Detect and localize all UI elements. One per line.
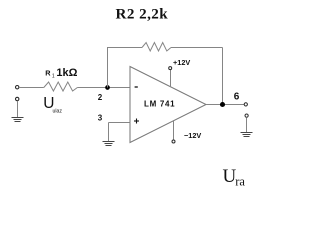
svg-text:6: 6 [234,92,240,103]
wire: J2 to input ground [17,101,19,118]
wire: feedback loop right vertical [222,48,224,105]
wire: J1 to R1 [19,87,44,89]
ground (pin 3) [103,142,115,146]
wire: J4 to output ground [246,117,248,132]
svg-text:+12V: +12V [173,58,190,67]
svg-text:ra: ra [235,174,245,188]
svg-text:R2 2,2k: R2 2,2k [116,7,169,23]
op-amp plus sign [134,119,139,124]
wire: feedback loop top right segment [171,47,223,49]
wire: R1 to op-amp inverting input (pin 2) [77,87,130,89]
svg-text:−12V: −12V [184,131,201,140]
-12V terminal [172,140,175,143]
wire: feedback loop left vertical [107,48,109,88]
wire: +12V supply drop to op-amp top edge [170,70,172,87]
node B junction dot (output) [220,102,225,107]
svg-text:ulaz: ulaz [53,108,63,114]
svg-text:1kΩ: 1kΩ [56,67,77,79]
ground (input) [12,118,24,122]
node A junction dot (inverting input) [105,85,110,90]
svg-text:3: 3 [98,114,103,123]
wire: -12V supply drop from op-amp bottom edge [173,121,175,140]
output terminal J4 (Ura -) [245,114,248,117]
input terminal J2 (Uulaz -) [16,97,19,100]
resistor R1 [44,82,78,91]
svg-text:LM 741: LM 741 [144,100,175,109]
svg-text:1: 1 [52,73,55,79]
svg-text:R: R [45,68,51,77]
svg-text:2: 2 [98,93,103,102]
output terminal J3 (Ura +) [244,103,247,106]
wire: op-amp output (pin 6) [206,104,244,106]
wire: feedback loop top left segment [107,47,142,49]
ground (output) [241,133,253,137]
resistor R2 (feedback) [142,43,171,52]
op-amp U1 LM741 triangle [130,67,206,143]
op-amp minus sign [135,86,138,88]
wire: pin 3 vertical to ground [108,123,110,142]
input terminal J1 (Uulaz +) [16,86,19,89]
+12V terminal [169,67,172,70]
wire: non-inverting input (pin 3) horizontal [109,122,131,124]
